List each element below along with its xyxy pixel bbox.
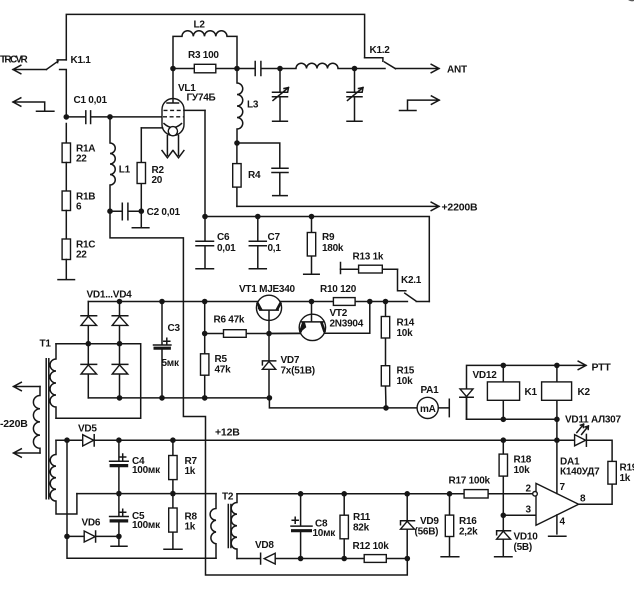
svg-text:R16: R16 xyxy=(459,516,477,527)
terminal RX stub arrow (right) xyxy=(400,96,440,111)
svg-text:TRCVR: TRCVR xyxy=(0,55,29,66)
wire top bus from K1.1 to K1.2 xyxy=(66,14,364,60)
svg-text:2,2k: 2,2k xyxy=(459,527,478,538)
resistor R1A xyxy=(62,124,70,163)
tube VL1 anode xyxy=(167,69,179,104)
svg-text:4: 4 xyxy=(560,517,566,528)
label VD7 7x(51V) xyxy=(281,355,315,377)
tube VL1 envelope xyxy=(162,99,184,136)
wire main +300V bus xyxy=(88,301,407,303)
node screen bus junction xyxy=(202,214,208,220)
svg-text:1k: 1k xyxy=(620,473,631,484)
svg-text:R10 120: R10 120 xyxy=(320,284,357,295)
wire output bottom rail xyxy=(301,558,408,560)
tube VL1 heater leads xyxy=(162,136,184,158)
resistor R13 xyxy=(341,265,398,273)
label R5 47k xyxy=(215,354,232,376)
capacitor C7 xyxy=(249,217,266,269)
meter PA1 xyxy=(417,397,449,418)
node VD7 bottom xyxy=(267,395,273,401)
label C6 0,01 xyxy=(217,232,236,254)
capacitor tank (right of R4) xyxy=(237,143,288,196)
svg-text:R13 1k: R13 1k xyxy=(353,252,384,263)
zener VD7 xyxy=(262,334,275,398)
label R1C 22 xyxy=(76,240,95,261)
tube VL1 cathode xyxy=(141,124,181,136)
label R18 10k xyxy=(514,455,532,477)
label C3 5mk xyxy=(162,323,181,369)
node R14 top junction xyxy=(383,299,389,305)
node K1 top xyxy=(501,363,507,369)
terminal R13 left bar xyxy=(340,263,342,274)
label R8 1k xyxy=(185,512,198,533)
capacitor C8 xyxy=(291,494,312,559)
svg-text:K2.1: K2.1 xyxy=(401,275,422,286)
ground under R1C xyxy=(58,260,75,280)
wire aux winding down line xyxy=(67,440,216,558)
svg-text:R3 100: R3 100 xyxy=(188,50,219,61)
wire op-amp output xyxy=(579,484,613,504)
node ANT arrow xyxy=(396,64,440,72)
diode VD6 xyxy=(67,531,119,542)
svg-text:PA1: PA1 xyxy=(421,385,440,396)
svg-text:VD5: VD5 xyxy=(78,424,97,435)
node C5 bottom xyxy=(116,534,122,540)
node C2-R2 junction xyxy=(139,208,145,214)
wire keying line from C2 to output rail xyxy=(110,211,407,575)
terminal RX stub arrow (left) xyxy=(13,98,54,111)
svg-text:100мк: 100мк xyxy=(132,520,161,531)
label R1B 6 xyxy=(76,192,95,213)
diode VD4 xyxy=(112,344,128,398)
svg-text:R12 10k: R12 10k xyxy=(353,541,390,552)
capacitor C5 xyxy=(110,494,129,537)
resistor R18 xyxy=(499,440,507,530)
trimmer capacitor 1 xyxy=(273,69,289,122)
svg-text:VD12: VD12 xyxy=(473,370,498,381)
node C1 junction xyxy=(64,114,70,120)
ground under C2 xyxy=(132,211,149,228)
svg-text:8: 8 xyxy=(580,494,586,505)
svg-text:C2 0,01: C2 0,01 xyxy=(147,207,181,218)
svg-text:L2: L2 xyxy=(194,20,206,31)
capacitor C2 xyxy=(110,203,141,220)
op-amp DA1 xyxy=(533,483,579,525)
transformer T2 core xyxy=(228,505,231,548)
svg-text:T1: T1 xyxy=(40,339,52,350)
wire +12V bus xyxy=(56,440,612,461)
node R5 bottom xyxy=(202,395,208,401)
svg-text:22: 22 xyxy=(76,250,87,261)
svg-text:VD6: VD6 xyxy=(82,518,101,529)
svg-text:VT2: VT2 xyxy=(330,308,348,319)
diode VD12 xyxy=(460,389,473,419)
node VD9 bottom xyxy=(405,556,411,562)
resistor R1B xyxy=(62,163,70,211)
node VT1 base junction xyxy=(266,331,272,337)
label VD10 (5V) xyxy=(514,532,539,554)
svg-text:R4: R4 xyxy=(248,170,261,181)
node bridge col B top xyxy=(117,299,123,305)
node C5 top xyxy=(116,491,122,497)
svg-text:K1: K1 xyxy=(525,387,538,398)
label VT2 2N3904 xyxy=(330,308,364,330)
svg-text:R6 47k: R6 47k xyxy=(214,315,245,326)
capacitor C3 xyxy=(154,302,171,398)
wire output top rail xyxy=(237,493,533,495)
node minus rail B xyxy=(117,395,123,401)
label VL1 xyxy=(178,83,216,104)
transformer T2 secondary xyxy=(231,494,237,559)
svg-text:(5В): (5В) xyxy=(514,542,532,553)
svg-text:ANT: ANT xyxy=(447,65,467,76)
transistor VT2 xyxy=(269,302,370,341)
switch K1.2 xyxy=(355,58,396,69)
svg-text:L1: L1 xyxy=(119,165,131,176)
resistor R16 xyxy=(441,494,459,557)
node VD9 top xyxy=(404,491,410,497)
diode VD3 xyxy=(81,344,97,398)
resistor R7 xyxy=(169,440,177,493)
resistor R8 xyxy=(164,494,182,550)
svg-text:L3: L3 xyxy=(247,100,259,111)
resistor R6 xyxy=(205,330,301,338)
relay K2 xyxy=(542,365,572,419)
label C4 100mk xyxy=(132,456,161,476)
svg-text:-220В: -220В xyxy=(0,418,28,430)
transformer T1 primary xyxy=(33,387,40,454)
node VD6 anode junction xyxy=(64,534,70,540)
label C7 0,1 xyxy=(268,232,282,254)
node trimmer1 junction xyxy=(277,66,283,72)
node VT2 base top xyxy=(309,299,315,305)
resistor R11 xyxy=(340,494,348,559)
svg-text:10k: 10k xyxy=(397,376,414,387)
node relay rail K1 xyxy=(501,417,507,423)
capacitor coupling (antenna) xyxy=(237,62,280,76)
ground under C5 xyxy=(111,536,127,546)
zener VD9 xyxy=(401,494,415,559)
capacitor C6 xyxy=(196,217,214,269)
svg-text:22: 22 xyxy=(76,154,87,165)
svg-text:ГУ74Б: ГУ74Б xyxy=(187,93,216,104)
wire rectifier minus rail xyxy=(88,398,417,408)
resistor R12 xyxy=(364,555,386,563)
svg-text:20: 20 xyxy=(152,175,163,186)
svg-text:C1 0,01: C1 0,01 xyxy=(74,95,108,106)
inductor L2 xyxy=(173,31,237,69)
svg-text:R19: R19 xyxy=(620,463,634,474)
diode VD8 xyxy=(237,553,301,564)
transformer T1 core xyxy=(46,359,49,499)
resistor R19 xyxy=(608,461,616,484)
inductor L3 xyxy=(237,69,243,144)
label R7 1k xyxy=(185,456,198,477)
svg-text:10k: 10k xyxy=(397,328,414,339)
svg-text:T2: T2 xyxy=(222,492,234,503)
node C3 bottom xyxy=(159,395,165,401)
transformer T1 secondary 2 xyxy=(50,440,77,514)
capacitor C4 xyxy=(110,440,129,493)
inductor L1 xyxy=(110,117,115,211)
wire bridge mid rail xyxy=(56,344,141,419)
transistor VT1 xyxy=(256,295,281,333)
svg-text:К140УД7: К140УД7 xyxy=(560,467,600,478)
node L1-C2 junction xyxy=(107,208,113,214)
svg-text:C6: C6 xyxy=(217,232,230,243)
svg-text:R15: R15 xyxy=(397,366,415,377)
label R1A 22 xyxy=(76,144,95,165)
svg-text:R18: R18 xyxy=(514,455,532,466)
label C8 10mk xyxy=(313,519,337,540)
resistor R5 xyxy=(201,302,209,398)
svg-text:3: 3 xyxy=(526,505,532,516)
wire relay bottom rail xyxy=(467,419,557,440)
svg-text:0,1: 0,1 xyxy=(268,243,282,254)
node L3 bottom junction xyxy=(234,140,240,146)
node R9 junction xyxy=(309,214,315,220)
node R11 top xyxy=(341,491,347,497)
node R5 top xyxy=(202,299,208,305)
wire grid line to tube xyxy=(110,116,162,118)
node VT2 collector junction xyxy=(367,299,373,305)
svg-text:82k: 82k xyxy=(353,523,370,534)
label DA1 K140UD7 xyxy=(560,457,600,478)
svg-text:K1.1: K1.1 xyxy=(71,55,92,66)
node pin7 bus junction xyxy=(554,437,560,443)
resistor R10 xyxy=(333,298,355,306)
svg-text:mA: mA xyxy=(420,404,436,415)
wire low-voltage mid rail xyxy=(77,493,216,495)
node bridge mid B xyxy=(117,341,123,347)
svg-text:VD7: VD7 xyxy=(281,355,300,366)
svg-text:180k: 180k xyxy=(322,243,344,254)
node R8 top xyxy=(170,491,176,497)
resistor R2 xyxy=(137,128,145,211)
wire pin3 input xyxy=(503,514,536,516)
node TRCVR arrow xyxy=(13,65,46,73)
node bridge mid A xyxy=(86,341,92,347)
resistor R1C xyxy=(62,211,70,260)
node pin3 tee xyxy=(501,513,507,519)
label R16 2,2k xyxy=(459,516,478,538)
node L2-R3 right junction xyxy=(234,66,240,72)
svg-text:R17 100k: R17 100k xyxy=(449,476,491,487)
svg-text:10k: 10k xyxy=(514,465,531,476)
label R14 10k xyxy=(397,318,415,340)
wire +2200V feed bus xyxy=(205,217,429,302)
resistor R14 xyxy=(381,302,389,366)
node R15 bottom xyxy=(383,405,389,411)
node C8 top xyxy=(298,491,304,497)
svg-text:100мк: 100мк xyxy=(132,465,161,476)
svg-text:7x(51В): 7x(51В) xyxy=(281,366,315,377)
diode VD5 xyxy=(83,435,95,446)
wire PTT rail xyxy=(467,361,587,419)
svg-text:0,01: 0,01 xyxy=(217,243,236,254)
label R9 180k xyxy=(322,232,344,254)
svg-text:47k: 47k xyxy=(215,365,232,376)
relay K1 xyxy=(487,365,519,419)
tube VL1 screen grid xyxy=(164,109,206,111)
svg-text:R9: R9 xyxy=(322,232,335,243)
label R15 10k xyxy=(397,366,415,388)
node R18 top xyxy=(501,437,507,443)
label VD9 (56V) xyxy=(415,516,440,538)
node C8 bottom xyxy=(298,556,304,562)
svg-text:РТТ: РТТ xyxy=(592,362,612,374)
diode VD1 xyxy=(81,302,97,344)
svg-text:C3: C3 xyxy=(168,323,181,334)
svg-text:K2: K2 xyxy=(578,387,591,398)
switch K1.1 xyxy=(46,60,66,117)
svg-text:R5: R5 xyxy=(215,354,228,365)
wire screen grid vertical xyxy=(204,110,206,216)
pin 7 lead xyxy=(556,440,558,493)
node relay rail K2 xyxy=(554,417,560,423)
transformer T1 secondary 1 xyxy=(50,344,56,419)
switch K2.1 xyxy=(398,269,430,301)
svg-text:VD9: VD9 xyxy=(420,516,439,527)
svg-text:6: 6 xyxy=(76,202,82,213)
node R16 top xyxy=(447,491,453,497)
svg-text:5мк: 5мк xyxy=(162,358,180,369)
svg-text:VT1 MJE340: VT1 MJE340 xyxy=(239,284,296,295)
svg-text:+2200В: +2200В xyxy=(442,202,478,214)
node R7 top xyxy=(170,437,176,443)
svg-text:2N3904: 2N3904 xyxy=(330,319,364,330)
node C3 top xyxy=(159,299,165,305)
svg-text:1k: 1k xyxy=(185,522,196,533)
svg-text:K1.2: K1.2 xyxy=(370,45,391,56)
node C4 top xyxy=(116,437,122,443)
capacitor C1 xyxy=(66,111,110,124)
svg-text:R11: R11 xyxy=(353,512,371,523)
svg-text:7: 7 xyxy=(560,482,566,493)
diode VD2 xyxy=(112,302,128,344)
zener VD10 xyxy=(495,531,512,557)
label C5 100mk xyxy=(132,511,161,531)
svg-text:R14: R14 xyxy=(397,318,415,329)
svg-text:10мк: 10мк xyxy=(313,528,337,539)
resistor R4 xyxy=(233,143,241,206)
label R2 20 xyxy=(152,165,165,186)
node anode junction xyxy=(170,66,176,72)
resistor R9 xyxy=(304,217,320,275)
svg-text:+12В: +12В xyxy=(215,427,240,439)
resistor R3 xyxy=(173,64,237,73)
transformer T2 primary xyxy=(210,494,216,559)
resistor R15 xyxy=(381,366,389,408)
node trimmer2 junction xyxy=(352,66,358,72)
node VD5 input junction xyxy=(64,437,70,443)
svg-text:VD1...VD4: VD1...VD4 xyxy=(87,290,133,301)
node K2 top xyxy=(554,363,560,369)
svg-text:VD8: VD8 xyxy=(255,540,274,551)
label R19 1k xyxy=(620,463,634,485)
resistor R17 xyxy=(464,490,488,498)
node C7 junction xyxy=(255,214,261,220)
node C1-L1 junction xyxy=(107,114,113,120)
svg-text:C7: C7 xyxy=(268,232,281,243)
inductor antenna filter xyxy=(280,63,355,68)
label R11 82k xyxy=(353,512,371,534)
svg-text:VD11 АЛ307: VD11 АЛ307 xyxy=(565,415,621,426)
node -220V arrows xyxy=(14,382,41,457)
svg-text:2: 2 xyxy=(526,484,532,495)
svg-text:1k: 1k xyxy=(185,466,196,477)
tube VL1 control grid xyxy=(163,116,184,118)
svg-text:VD10: VD10 xyxy=(514,532,539,543)
node R6 left junction xyxy=(202,331,208,337)
pin 4 lead and ground xyxy=(549,515,566,536)
svg-text:(56В): (56В) xyxy=(415,527,439,538)
node R11 bottom xyxy=(341,556,347,562)
node +2200V arrow xyxy=(237,202,439,210)
trimmer capacitor 2 xyxy=(347,69,363,122)
LED VD11 xyxy=(575,424,589,446)
